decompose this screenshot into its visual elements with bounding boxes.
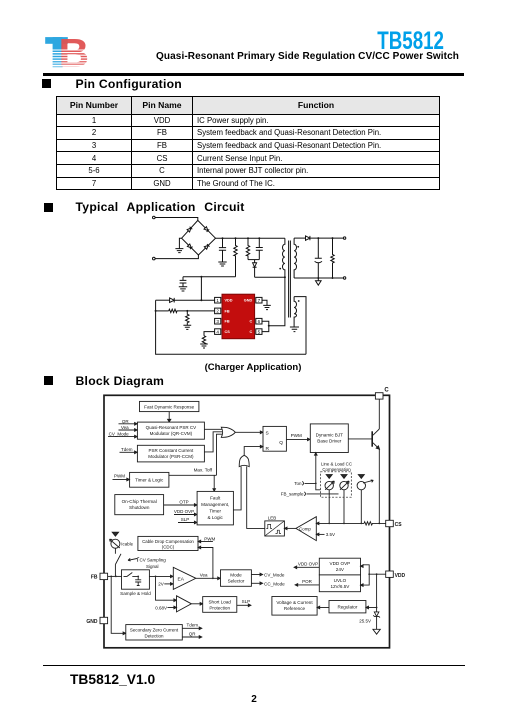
svg-text:GND: GND [244,299,253,303]
svg-text:LEB: LEB [268,515,277,520]
wire PSRCCM out riser [204,432,222,452]
junction dots output top [317,237,333,239]
box Short Load Protection [203,597,237,613]
IC U1 body [222,294,255,339]
IC pin labels [225,299,253,334]
wire branch to SLP comparator [156,576,174,600]
svg-text:0.68V: 0.68V [155,606,167,611]
FB row wire [156,310,169,312]
svg-text:Shutdown: Shutdown [129,505,150,510]
load resistor R3 [331,238,334,278]
transformer core [289,241,291,318]
VDD diode D3 [156,299,170,301]
bridge rectifier BD1 diamond [182,220,216,255]
junction primary bottom [284,276,286,278]
svg-text:Mode: Mode [230,573,242,578]
svg-text:Reference: Reference [284,606,306,611]
clamp diode D1 [254,260,256,263]
svg-text:QR: QR [122,419,130,424]
svg-text:Max. Toff: Max. Toff [194,468,213,473]
box Fault Management Timer & Logic [197,491,233,525]
input 3.5V [316,533,324,535]
primary phase dot [279,268,281,270]
box QR-CVM [137,422,204,439]
wire comp to SLP box [191,603,200,605]
terminal FB [100,573,108,579]
svg-text:VDD: VDD [395,573,406,579]
wire LEB out to OR2 [247,466,265,528]
svg-text:CS: CS [395,522,403,528]
wire primary to C pins [269,277,285,326]
bottom rail wire [156,300,306,354]
svg-text:EA: EA [178,576,185,582]
header rule [43,73,464,76]
aux ground [290,327,299,332]
svg-text:Modulator (PSR-CCM): Modulator (PSR-CCM) [148,454,194,459]
wire to VDD terminal [369,573,386,575]
svg-text:C: C [249,320,252,324]
svg-text:CS: CS [225,330,231,334]
svg-text:12V/6.5V: 12V/6.5V [330,584,350,589]
bridge diode top-right [204,227,209,232]
wire OR1 to S [235,431,260,433]
svg-text:C: C [384,387,389,393]
sense resistor [364,522,386,525]
snubber resistor R2 [246,238,249,259]
output terminal + [343,237,345,239]
svg-text:Compensation: Compensation [322,467,351,472]
wire VDD up [183,277,236,300]
svg-text:Signal: Signal [146,564,159,569]
svg-text:Timer & Logic: Timer & Logic [135,478,164,483]
current source Icable [112,532,118,536]
svg-text:Short Load: Short Load [208,599,231,604]
CS wire [204,332,215,336]
terminal GND [100,617,108,623]
comparator Comp (points left) [296,517,316,541]
svg-text:7: 7 [258,298,261,303]
svg-text:Fault: Fault [210,496,221,501]
svg-text:& Logic: & Logic [208,515,224,520]
svg-text:1: 1 [216,298,219,303]
box CDC [138,536,198,550]
FB resistor R4 (horizontal) [169,309,215,312]
svg-text:2V: 2V [158,582,164,587]
IC pins right [256,297,262,334]
CS resistor R6 [202,336,205,344]
box UVLO [319,575,360,592]
zener diode 25.5V [374,612,379,617]
FB rail [108,575,122,577]
svg-text:PWM: PWM [291,433,302,438]
svg-text:3: 3 [216,319,219,324]
emitter wire down to CS rail [378,449,380,523]
ground (open triangle) [373,629,380,634]
svg-text:On-Chip Thermal: On-Chip Thermal [122,499,157,504]
svg-text:Ton: Ton [294,481,302,486]
svg-text:SLP: SLP [242,599,251,604]
svg-text:Cable Drop Compensation: Cable Drop Compensation [142,539,194,544]
svg-text:Fast Dynamic Response: Fast Dynamic Response [144,404,194,409]
secondary ground arrow [316,278,322,285]
ground under C4 [179,287,187,291]
svg-text:Protection: Protection [209,605,230,610]
ground at bridge left [175,238,183,252]
ground under R5 [183,325,191,329]
output CC_Mode [251,582,260,584]
svg-text:Detection: Detection [144,633,164,638]
svg-text:Sample & Hold: Sample & Hold [120,591,151,596]
transistor Q1 [348,438,372,440]
svg-text:Base Driver: Base Driver [317,439,341,444]
aux phase dot [298,300,300,302]
ground under R6 [200,344,208,348]
OR gate OR2 (vertical) [239,455,249,466]
svg-text:2: 2 [216,309,219,314]
svg-text:C: C [249,330,252,334]
svg-text:R: R [266,446,270,452]
box VDD OVP 24V [319,558,360,575]
svg-text:4: 4 [216,329,219,334]
bridge diode bottom-left [187,244,192,249]
VDD capacitor C4 [180,277,187,287]
svg-text:CC_Mode: CC_Mode [264,581,285,586]
wire S&H to EA [149,575,170,577]
bulk capacitor C1 [219,238,226,262]
FB lower resistor R5 [186,311,189,325]
svg-text:Tdem: Tdem [121,447,133,452]
pin numbers [216,298,260,334]
box PSR-CCM [137,445,204,462]
wire Q PWM to driver [286,438,307,440]
wire [155,255,198,259]
svg-text:GND: GND [86,619,98,625]
output capacitor C3 (electrolytic) [315,238,322,278]
wire regulator to reference [320,607,329,609]
svg-text:Secondary Zero Current: Secondary Zero Current [130,627,179,632]
junction dots on rail [222,237,261,239]
IC pins left [215,297,221,334]
box Sample & Hold [122,570,150,589]
box Secondary Zero Current Detection [126,625,183,640]
box Voltage & Current Reference [272,597,317,616]
wire FB to SZCD [111,576,123,633]
svg-text:CV Sampling: CV Sampling [140,558,167,563]
OR gate OR1 [221,427,235,437]
wire EA out to Mode Selector [196,577,218,579]
svg-text:Selector: Selector [228,579,245,584]
dashed box compensation [321,472,352,497]
bridge diode top-left [187,227,192,232]
terminal CS [386,520,394,526]
GND pin wire and ground [262,300,271,309]
svg-text:PWM: PWM [114,474,125,479]
startup resistor R1 [234,238,237,277]
wire Vea riser to CDC [201,548,213,579]
aux winding [294,297,296,327]
wire MaxToff riser [217,434,223,475]
svg-text:PSR Constant Current: PSR Constant Current [149,448,195,453]
application circuit SVG [140,210,440,360]
svg-text:VDD: VDD [225,299,233,303]
svg-text:FB_sample: FB_sample [281,492,304,497]
logo T [45,37,68,44]
current source I2 [341,475,347,479]
FB divider junction [186,310,188,312]
box LEB [265,521,285,536]
wire zener to regulator [369,607,377,609]
svg-text:OTP: OTP [179,500,188,505]
SR latch U2 [263,426,286,451]
output terminal - [343,277,345,279]
box Regulator [329,601,366,613]
svg-text:Voltage & Current: Voltage & Current [276,600,313,605]
AC input terminal top [153,216,156,219]
box Dynamic BJT Base Driver [310,424,348,453]
wire OR2 to R [244,447,260,456]
box Timer & Logic [130,472,169,487]
svg-text:Timer: Timer [209,509,221,514]
svg-text:3.5V: 3.5V [326,532,335,537]
svg-text:Quasi-Resonant PSR CV: Quasi-Resonant PSR CV [146,425,197,430]
svg-text:Icable: Icable [121,542,133,547]
junction dots output bottom [317,277,333,279]
collector wire to C terminal [378,399,380,429]
svg-text:CV_Mode: CV_Mode [264,573,285,578]
aux top wire to right side [294,297,306,355]
zener branch [376,574,378,612]
svg-text:Regulator: Regulator [337,605,357,610]
Ton riser to driver [315,455,317,483]
bridge diode bottom-right [204,244,209,249]
main frame [104,395,390,648]
svg-text:Line & Load CC: Line & Load CC [321,461,352,466]
snubber capacitor C2 [256,238,263,259]
svg-text:QR: QR [189,631,197,636]
svg-text:Q: Q [279,440,283,446]
terminal VDD [386,571,394,577]
svg-text:5: 5 [258,329,261,334]
svg-text:VDD OVP: VDD OVP [298,562,318,567]
box On-Chip Thermal Shutdown [115,495,164,515]
wire comp out to LEB [287,527,296,529]
comparator short-load [177,596,192,612]
svg-text:Tdem: Tdem [187,623,199,628]
svg-text:6: 6 [258,319,261,324]
svg-text:CV_Mode: CV_Mode [109,432,130,437]
svg-text:FB: FB [225,309,230,313]
svg-text:25.5V: 25.5V [359,619,371,624]
transformer secondary winding [294,238,296,278]
svg-text:UVLO: UVLO [334,578,347,583]
svg-text:Management,: Management, [201,502,229,507]
wire [155,218,198,221]
wire snubber bottom [248,259,259,261]
svg-text:FB: FB [225,320,230,324]
CV sampling arrow [128,558,137,561]
svg-text:(CDC): (CDC) [162,545,175,550]
current source I3 [358,475,364,479]
wire QRCVM out to OR1 [204,428,222,430]
current source I1 [326,475,332,479]
AC input terminal bottom [153,257,156,260]
terminal C [375,393,383,399]
C pins join wire [262,321,269,331]
label CV Sampling Signal [140,558,167,569]
wire branch to fault box [213,475,215,488]
box Mode Selector [221,570,252,587]
svg-text:VDD OVP: VDD OVP [330,561,351,566]
svg-text:Modulator (QR-CVM): Modulator (QR-CVM) [150,431,193,436]
svg-text:PWM: PWM [204,536,215,541]
box FDR Fast Dynamic Response [140,401,199,411]
svg-text:VDD OVP: VDD OVP [174,509,194,514]
junction VDD [200,299,202,301]
output rectifier D2 [294,237,305,239]
DC rail wire [216,237,285,239]
secondary phase dot [297,246,299,248]
wire clamp to primary [255,276,285,278]
wire FDR to QRCVM [168,412,170,420]
svg-text:FB: FB [91,575,98,581]
output bottom rail [294,277,343,279]
output CV_Mode [251,574,260,576]
svg-text:24V: 24V [336,567,345,572]
svg-text:POR: POR [302,579,313,584]
block diagram SVG [85,383,435,653]
wire fault out to OR2 [233,466,241,510]
transformer T1 primary winding [283,238,285,277]
wire timer out Max Toff [169,474,217,476]
svg-text:Vea: Vea [121,425,129,430]
bracket right of OVP/UVLO [361,565,364,568]
error amp EA [173,567,196,589]
svg-text:SLP: SLP [181,517,190,522]
CS sense rail [316,522,364,524]
svg-text:S: S [266,430,269,436]
ground under C1 [218,262,226,266]
wire Icable to switch and FB rail [115,548,121,576]
label Line & Load CC Compensation [321,461,352,471]
svg-text:Dynamic BJT: Dynamic BJT [316,433,344,438]
svg-text:Comp: Comp [299,526,311,531]
svg-text:Vea: Vea [200,573,208,578]
